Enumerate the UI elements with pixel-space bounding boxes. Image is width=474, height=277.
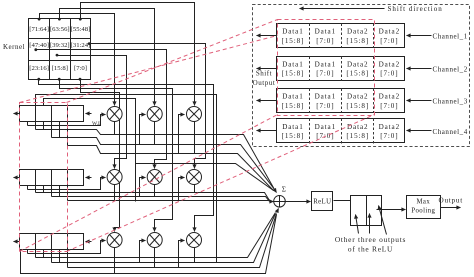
svg-text:Output: Output [253,79,276,87]
svg-text:[47:40]: [47:40] [29,42,49,49]
svg-text:Shift: Shift [256,69,272,77]
svg-text:[55:48]: [55:48] [71,26,91,33]
svg-text:[7:0]: [7:0] [380,102,398,110]
svg-text:Max: Max [416,199,430,206]
svg-text:[15:8]: [15:8] [346,102,369,110]
svg-text:W.L: W.L [92,121,102,127]
svg-text:Data2: Data2 [379,123,400,131]
svg-text:[39:32]: [39:32] [50,42,70,49]
svg-text:[15:8]: [15:8] [346,132,369,140]
svg-text:[7:0]: [7:0] [380,132,398,140]
svg-text:[7:0]: [7:0] [380,37,398,45]
svg-text:[23:16]: [23:16] [29,65,49,72]
svg-text:Data1: Data1 [315,60,336,68]
svg-text:Data1: Data1 [315,28,336,36]
svg-text:Other three outputs: Other three outputs [335,235,406,244]
svg-text:[7:0]: [7:0] [316,70,334,78]
svg-text:Channel_1: Channel_1 [433,33,468,41]
svg-text:[63:56]: [63:56] [50,26,70,33]
svg-text:Output: Output [439,197,463,205]
svg-text:[7:0]: [7:0] [380,70,398,78]
svg-text:[7:0]: [7:0] [316,102,334,110]
svg-text:Data2: Data2 [347,93,368,101]
svg-text:Data2: Data2 [347,123,368,131]
svg-text:of the ReLU: of the ReLU [348,245,393,254]
svg-text:Data2: Data2 [379,93,400,101]
svg-text:[15:8]: [15:8] [282,102,305,110]
svg-text:[15:8]: [15:8] [346,70,369,78]
svg-text:[7:0]: [7:0] [74,65,87,72]
svg-text:Data2: Data2 [347,60,368,68]
svg-text:[15:8]: [15:8] [282,132,305,140]
svg-text:Kernel: Kernel [3,43,25,51]
svg-text:Data2: Data2 [347,28,368,36]
svg-text:Data1: Data1 [282,93,303,101]
svg-text:[71:64]: [71:64] [29,26,49,33]
svg-text:[31:24]: [31:24] [71,42,91,49]
svg-text:Channel_4: Channel_4 [433,128,468,136]
svg-text:Pooling: Pooling [411,208,435,215]
svg-text:Data1: Data1 [282,60,303,68]
svg-text:Channel_3: Channel_3 [433,98,468,106]
svg-text:Data1: Data1 [315,123,336,131]
svg-text:[15:8]: [15:8] [282,70,305,78]
svg-text:[15:8]: [15:8] [52,65,68,72]
svg-text:Data2: Data2 [379,28,400,36]
svg-text:[7:0]: [7:0] [316,37,334,45]
svg-text:Data1: Data1 [315,93,336,101]
svg-text:[15:8]: [15:8] [346,37,369,45]
svg-text:ReLU: ReLU [313,198,331,205]
svg-text:Channel_2: Channel_2 [433,65,468,73]
svg-text:Data1: Data1 [282,28,303,36]
svg-text:Data1: Data1 [282,123,303,131]
svg-text:Σ: Σ [282,186,286,194]
svg-text:Shift direction: Shift direction [388,5,443,13]
svg-text:[15:8]: [15:8] [282,37,305,45]
svg-text:Data2: Data2 [379,60,400,68]
